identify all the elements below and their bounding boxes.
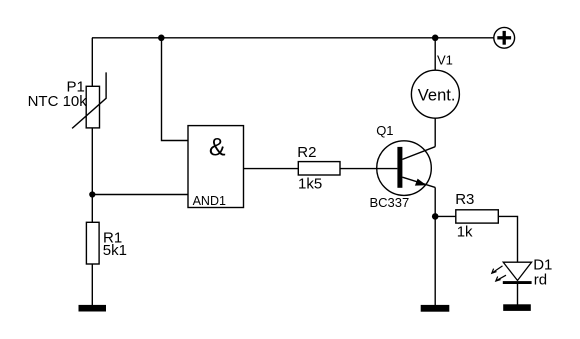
- svg-text:1k5: 1k5: [298, 176, 322, 193]
- wire R2 to Q1 base: [340, 168, 377, 170]
- LED light arrow 2: [496, 275, 506, 281]
- wire V1 bottom to Q1 collector: [434, 118, 436, 147]
- ground under Q1 emitter: [421, 305, 450, 312]
- LED triangle: [503, 262, 531, 280]
- node junction dot emitter/R3: [432, 213, 439, 220]
- svg-text:R2: R2: [297, 144, 316, 161]
- motor V1 fan: [411, 70, 459, 118]
- wire V1 top lead from rail: [434, 38, 436, 71]
- emitter diagonal: [402, 177, 435, 187]
- svg-text:rd: rd: [534, 271, 547, 288]
- LED light arrow 1: [492, 266, 503, 273]
- wire R3 right to LED top: [498, 216, 517, 262]
- wire Q1 emitter down to ground: [434, 187, 436, 305]
- power supply + terminal: [494, 27, 515, 48]
- svg-text:&: &: [209, 133, 226, 161]
- node junction dot P1/R1 divider: [89, 191, 95, 197]
- svg-text:BC337: BC337: [370, 195, 410, 210]
- svg-text:R3: R3: [455, 191, 474, 208]
- base lead: [377, 168, 398, 170]
- resistor R1 body: [86, 222, 99, 264]
- wire AND1 output to R2: [244, 168, 299, 170]
- wire P1 top lead: [91, 38, 93, 87]
- transistor Q1: [377, 141, 436, 196]
- ground under R1: [79, 305, 107, 312]
- wire emitter junction to R3: [435, 215, 456, 217]
- svg-text:Q1: Q1: [376, 123, 393, 138]
- resistor R2 body: [298, 162, 340, 175]
- svg-text:V1: V1: [437, 53, 453, 68]
- ground under D1: [503, 304, 531, 311]
- thermistor P1 body: [86, 86, 99, 128]
- wire R1 bottom to ground: [91, 264, 93, 305]
- resistor R3 body: [456, 210, 499, 223]
- svg-text:1k: 1k: [457, 224, 473, 241]
- wire AND1 input1 vertical drop from rail: [162, 38, 189, 141]
- node junction dot on rail at V1 branch: [432, 35, 439, 42]
- node junction dot on rail at AND input branch: [158, 35, 165, 42]
- wire LED cathode to ground: [517, 284, 519, 305]
- base bar: [397, 147, 402, 188]
- svg-text:AND1: AND1: [193, 194, 226, 208]
- wire P1 bottom to R1 top: [91, 128, 93, 222]
- svg-text:NTC 10k: NTC 10k: [28, 93, 88, 110]
- thermistor P1 NTC stroke: [72, 72, 106, 128]
- collector diagonal: [402, 147, 435, 160]
- diode D1 LED: [492, 262, 532, 284]
- svg-text:Vent.: Vent.: [418, 86, 456, 104]
- wire top supply rail: [92, 37, 494, 39]
- emitter arrowhead: [415, 179, 427, 186]
- svg-text:5k1: 5k1: [103, 242, 127, 259]
- LED cathode bar: [503, 281, 532, 284]
- wire AND1 input2 horizontal: [92, 194, 188, 196]
- op-amp AND1 gate box: [188, 126, 244, 208]
